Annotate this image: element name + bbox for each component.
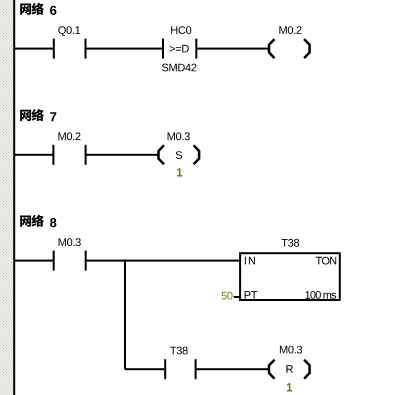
contact M0.2 left bar	[52, 145, 54, 165]
compare block left bar	[162, 39, 164, 59]
reset coil right paren	[304, 360, 310, 379]
reset coil left paren	[269, 360, 275, 379]
timer base 100 ms	[305, 291, 336, 299]
PT preset value 50	[222, 292, 233, 300]
contact T38 left bar	[164, 359, 166, 379]
network 8 title number 8	[50, 218, 56, 227]
contact M0.3 label	[59, 238, 81, 246]
contact Q0.1 label	[58, 26, 80, 36]
wire contact to timer box	[87, 260, 241, 262]
wire rail to contact M0.2	[15, 154, 53, 156]
wire compare block to coil M0.2	[197, 48, 268, 50]
reset coil R letter	[286, 365, 293, 373]
network 6 title 网	[20, 4, 31, 15]
timer pin label PT	[245, 291, 258, 299]
contact Q0.1 left bar	[53, 39, 55, 59]
wire contact to set coil	[87, 154, 158, 156]
contact M0.3 left bar	[53, 251, 55, 271]
reset coil operand 1	[287, 383, 292, 391]
set coil right paren	[194, 145, 200, 164]
set coil S letter	[176, 151, 182, 159]
wire rail to contact M0.3	[15, 260, 53, 262]
wire contact T38 to reset coil	[197, 368, 269, 370]
contact M0.3 right bar	[85, 251, 87, 271]
coil M0.2 right paren	[304, 39, 310, 58]
compare block right bar	[195, 39, 197, 59]
PT input stub wire	[234, 296, 240, 298]
compare block operand2 SMD42	[162, 64, 196, 72]
timer box outline	[240, 253, 340, 300]
network 8 title 网	[20, 216, 31, 227]
coil M0.2 left paren	[269, 39, 275, 58]
left power rail	[13, 0, 15, 395]
contact M0.2 label	[58, 132, 80, 140]
network 6 title 络	[32, 3, 44, 15]
network 7 title 网	[20, 110, 31, 121]
left gutter strip	[0, 0, 13, 395]
reset coil M0.3 label	[280, 346, 302, 354]
compare block operand1 HC0	[171, 26, 191, 34]
network 7 title 络	[32, 109, 44, 121]
wire contact to compare block	[87, 48, 163, 50]
network 6 title number 6	[50, 6, 56, 15]
branch junction vertical wire	[124, 260, 126, 370]
timer type TON	[316, 257, 337, 265]
set coil operand 1	[177, 168, 182, 176]
set coil M0.3 label	[168, 132, 190, 140]
timer T38 name above box	[282, 239, 300, 247]
compare block operator >=D	[170, 45, 189, 53]
coil M0.2 label	[279, 26, 301, 34]
network 7 title number 7	[50, 112, 56, 121]
contact Q0.1 right bar	[85, 39, 87, 59]
contact T38 label	[170, 347, 188, 355]
timer pin label IN	[245, 257, 255, 265]
set coil left paren	[159, 145, 165, 164]
network 8 title 络	[32, 215, 44, 227]
contact T38 right bar	[195, 359, 197, 379]
bottom branch wire to contact T38	[125, 368, 164, 370]
contact M0.2 right bar	[85, 145, 87, 165]
wire rail to contact Q0.1	[15, 48, 53, 50]
